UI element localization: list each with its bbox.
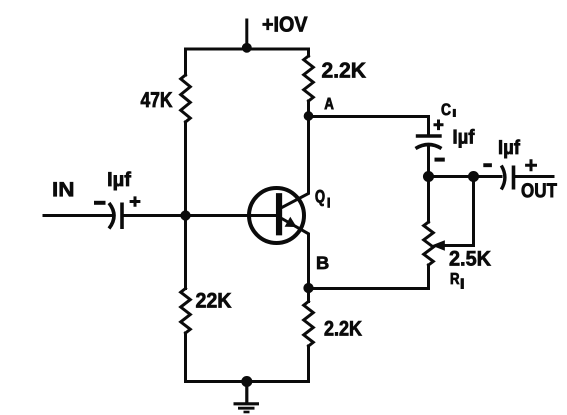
R1 wiper arrowhead bbox=[433, 241, 445, 250]
label Q1 subscript bbox=[327, 198, 330, 208]
node base dot bbox=[181, 211, 191, 221]
node B dot bbox=[304, 283, 314, 293]
capacitor input 1uf straight plate bbox=[120, 203, 124, 230]
label IN bbox=[54, 182, 74, 196]
label 1uf input bbox=[108, 172, 131, 191]
label 1uf C1 bbox=[454, 129, 475, 148]
capacitor output 1uf curved plate bbox=[501, 166, 505, 190]
transistor Q1 base bar bbox=[276, 194, 282, 236]
label Q1 bbox=[316, 190, 325, 206]
label +10V bbox=[263, 17, 308, 32]
capacitor C1 curved plate bbox=[416, 145, 442, 149]
wire left branch middle bbox=[184, 122, 187, 289]
wire R1 wiper bbox=[443, 177, 474, 246]
wire base bbox=[124, 214, 280, 217]
label 1uf output bbox=[499, 140, 520, 159]
transistor Q1 circle bbox=[249, 188, 304, 243]
wire +10V stub bbox=[245, 20, 248, 48]
wire input left bbox=[44, 214, 112, 217]
node C1 output dot bbox=[423, 171, 433, 181]
node dot top rail bbox=[242, 43, 251, 52]
wire output cap to OUT bbox=[515, 175, 554, 178]
label node A bbox=[325, 98, 334, 109]
polarity plus output cap bbox=[525, 159, 537, 171]
transistor Q1 emitter arrow bbox=[285, 217, 296, 226]
label C1 bbox=[442, 104, 451, 116]
label R1 subscript bbox=[461, 278, 464, 289]
capacitor input 1uf curved plate bbox=[109, 203, 114, 229]
node wiper top dot bbox=[468, 171, 478, 181]
label OUT bbox=[522, 183, 557, 197]
polarity plus input cap bbox=[130, 196, 141, 206]
node ground dot bbox=[242, 376, 252, 386]
resistor 2.2K upper bbox=[304, 56, 314, 101]
polarity plus C1 bbox=[434, 120, 444, 131]
label node B bbox=[317, 257, 328, 269]
wire collector bbox=[280, 116, 309, 209]
wire 2.2K to node A bbox=[307, 101, 310, 116]
wire top rail with corners bbox=[186, 49, 309, 75]
ground symbol bbox=[234, 382, 260, 413]
wire node B to 2.2K lower bbox=[307, 288, 310, 302]
label R1 bbox=[451, 273, 459, 284]
polarity minus input cap bbox=[94, 201, 106, 205]
label 47K bbox=[141, 92, 173, 107]
wire C1 to mid node bbox=[427, 146, 430, 177]
resistor 2.2K lower bbox=[304, 302, 314, 347]
capacitor output 1uf straight plate bbox=[512, 166, 516, 190]
capacitor C1 straight plate bbox=[416, 134, 442, 138]
label C1 subscript bbox=[453, 109, 456, 117]
wire node A to C1 bbox=[309, 117, 429, 135]
wire mid node down to R1 bbox=[427, 177, 430, 223]
resistor 22K bbox=[181, 289, 191, 334]
wire bottom rail bbox=[186, 333, 309, 382]
label 22K bbox=[196, 293, 231, 308]
polarity minus C1 bbox=[435, 158, 445, 162]
potentiometer R1 zigzag bbox=[424, 222, 434, 265]
wire R1 bottom to node B bbox=[309, 265, 429, 289]
label 2.5K bbox=[450, 251, 491, 266]
label 2.2K upper bbox=[322, 63, 366, 78]
polarity minus output cap bbox=[483, 163, 492, 167]
wire emitter bbox=[280, 218, 309, 289]
label 2.2K lower bbox=[325, 321, 362, 336]
node A dot bbox=[304, 112, 313, 121]
resistor 47K bbox=[181, 75, 191, 122]
wire mid node to output cap bbox=[429, 175, 502, 178]
